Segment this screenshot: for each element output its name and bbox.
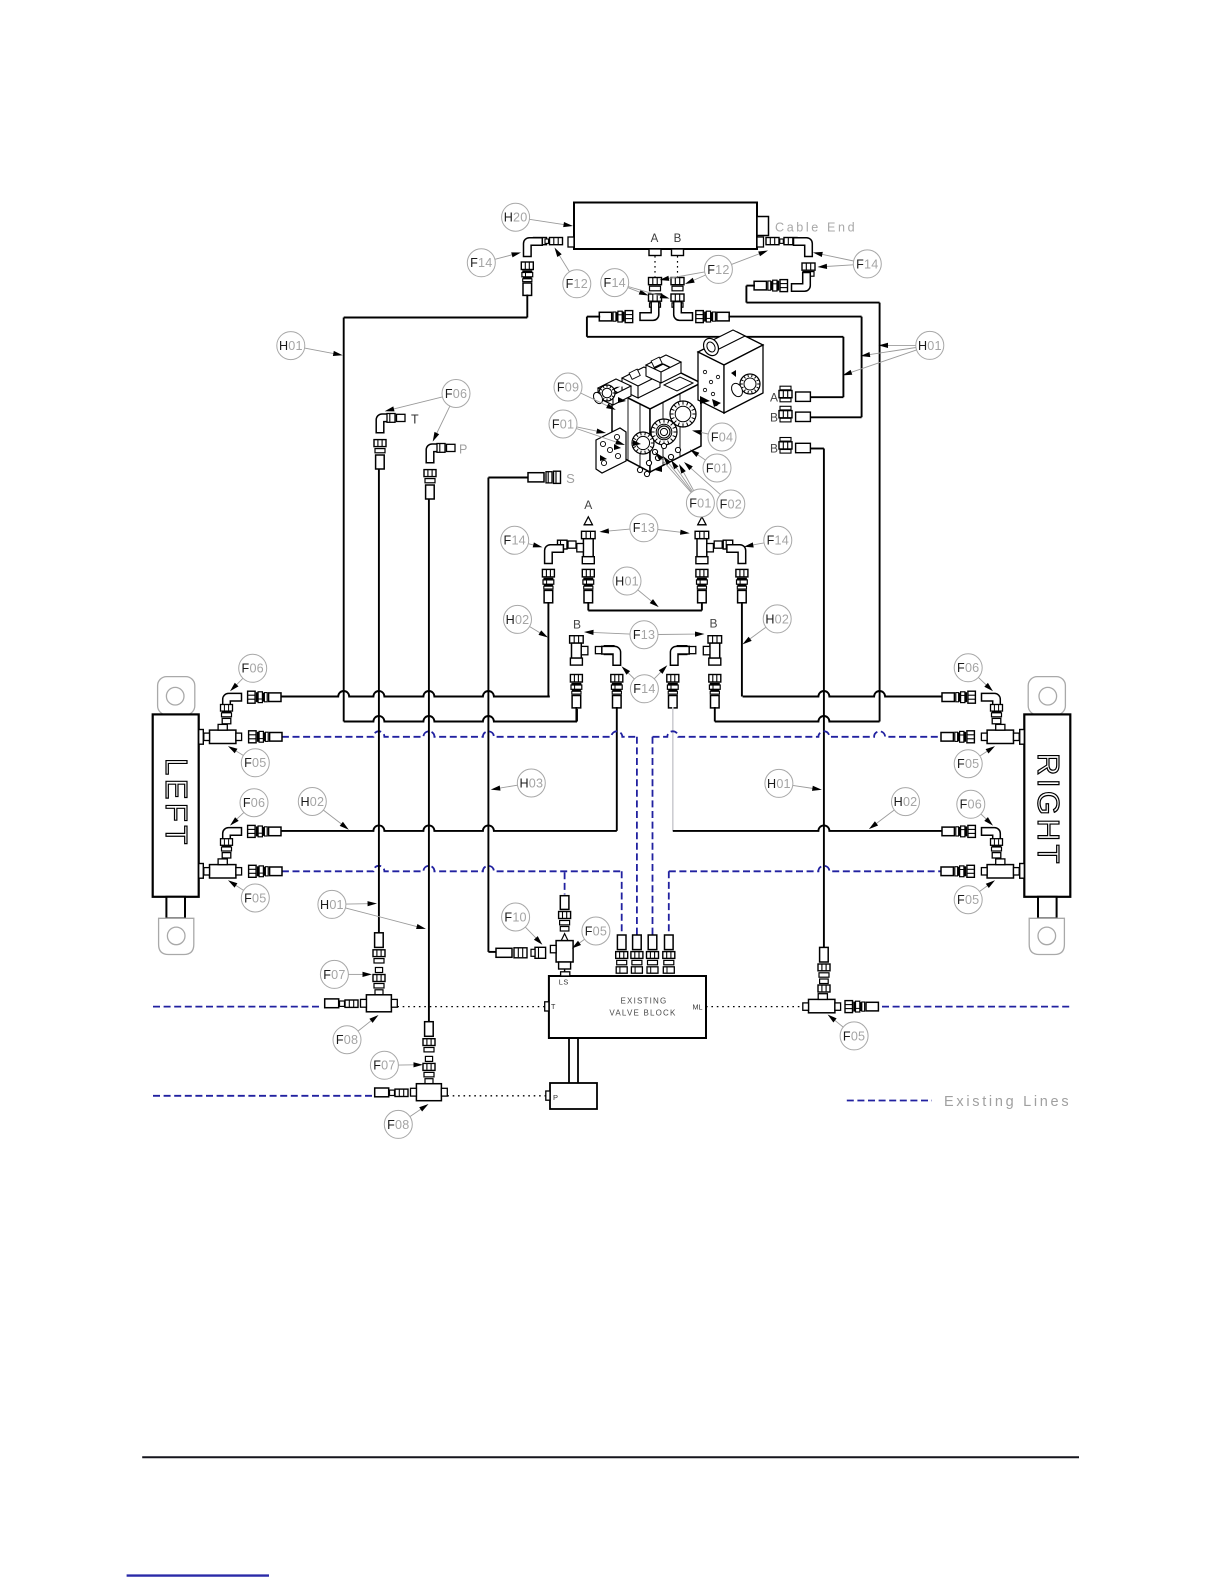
svg-text:F07: F07 xyxy=(373,1059,395,1073)
elbow F06 T-port xyxy=(376,414,395,433)
callout F05 right 1 xyxy=(954,746,995,778)
tee F08 lower xyxy=(411,1079,448,1101)
right cylinder port 2 stub xyxy=(1020,864,1025,879)
cable-end left port stub xyxy=(568,237,574,247)
left cylinder barrel xyxy=(153,714,199,896)
callout F14 mid xyxy=(601,269,670,299)
fitting stack below right F14 elbow xyxy=(736,569,748,602)
callout F14 mid-right xyxy=(744,526,792,554)
wire H01 between A-tees xyxy=(588,602,702,611)
callout H01 right-mid xyxy=(765,769,822,797)
callout F05 left 2 xyxy=(228,880,269,912)
fitting F12 on port A drop xyxy=(649,278,662,291)
elbow F06 above right port2 xyxy=(982,828,1001,847)
svg-text:EXISTING: EXISTING xyxy=(621,997,668,1006)
callout H01 middle xyxy=(613,567,659,607)
callout F07 upper xyxy=(320,960,372,988)
label S xyxy=(566,471,575,486)
label ML port xyxy=(693,1003,703,1012)
callout F12 right xyxy=(660,251,769,285)
dotted line F08 to valve T port xyxy=(397,1006,545,1008)
port B stub xyxy=(672,249,684,256)
svg-text:F06: F06 xyxy=(960,798,982,812)
fitting at valve port B lower xyxy=(779,438,810,454)
fitting stack between elbow and tee 2 xyxy=(221,839,233,858)
svg-text:H01: H01 xyxy=(279,339,303,353)
callout F07 lower xyxy=(370,1051,423,1079)
label T port xyxy=(551,1002,556,1011)
label port A xyxy=(651,233,659,245)
svg-text:ML: ML xyxy=(693,1003,703,1012)
fitting nuts right of bottom F05 tee xyxy=(845,1001,878,1013)
callout F09 xyxy=(554,373,616,410)
fitting at valve port S xyxy=(528,471,561,483)
valve block fittings on top xyxy=(616,935,675,973)
wire hose A to valve port A xyxy=(587,317,844,398)
svg-text:F01: F01 xyxy=(552,417,574,431)
svg-text:P: P xyxy=(553,1093,558,1102)
svg-text:F12: F12 xyxy=(566,277,588,291)
svg-text:A: A xyxy=(770,391,778,405)
elbow F06 above right port1 xyxy=(982,693,1001,712)
fitting stack below T elbow xyxy=(374,440,386,469)
port A stub xyxy=(649,249,661,256)
right cylinder top clevis xyxy=(1028,677,1065,715)
wire H02 lower-right (gray) xyxy=(672,707,674,831)
elbow under port A xyxy=(640,302,659,321)
cable-end right tab xyxy=(757,217,769,236)
callout F06 left 2 xyxy=(230,789,268,826)
svg-text:Existing Lines: Existing Lines xyxy=(944,1094,1071,1110)
existing line lower-right (blue dashed) xyxy=(669,866,941,872)
svg-text:F06: F06 xyxy=(242,662,264,676)
wire H01 bus right xyxy=(715,716,880,722)
callout H02 right-mid xyxy=(869,788,920,830)
legend text Existing Lines xyxy=(944,1094,1071,1110)
callout F01 right xyxy=(690,450,731,483)
label valve port A xyxy=(770,391,778,405)
svg-text:F04: F04 xyxy=(711,430,733,444)
dotted drop from port A xyxy=(654,256,656,277)
elbow under port B xyxy=(674,302,693,321)
svg-text:F06: F06 xyxy=(957,661,979,675)
fitting F14 stack below top-left elbow xyxy=(521,262,533,295)
valve block LS port stub xyxy=(561,972,570,976)
callout F08 upper xyxy=(333,1015,379,1054)
wire H01 bus left xyxy=(344,709,577,722)
svg-text:P: P xyxy=(459,443,467,457)
svg-text:F10: F10 xyxy=(504,910,526,924)
fitting nuts right of port1 elbow xyxy=(248,691,281,703)
dotted line F08 to P block xyxy=(447,1095,546,1097)
left cylinder bottom clevis xyxy=(159,918,194,954)
tee F05 at LS xyxy=(550,934,573,969)
callout F05 middle xyxy=(572,917,610,949)
callout F10 xyxy=(502,903,543,945)
fitting nuts left of right B-tee xyxy=(677,646,696,655)
svg-text:F05: F05 xyxy=(957,757,979,771)
existing riser 4 (blue dashed) xyxy=(668,871,670,935)
svg-text:F02: F02 xyxy=(720,497,742,511)
fitting stack below left A-tee xyxy=(582,569,594,602)
fitting nuts left of right port2 elbow xyxy=(942,825,975,837)
svg-text:H01: H01 xyxy=(767,777,791,791)
svg-text:T: T xyxy=(411,413,419,427)
svg-text:F13: F13 xyxy=(633,521,655,535)
svg-text:F05: F05 xyxy=(244,891,266,905)
label A left xyxy=(584,498,592,512)
wire H01 cable-end to right B-tee (upper part) xyxy=(746,286,879,722)
svg-text:S: S xyxy=(566,471,575,486)
wire hose bus top-left (rod ends) xyxy=(281,691,550,697)
wire right B-tee to bus xyxy=(714,707,716,722)
elbow F14 top-right xyxy=(794,238,813,257)
fitting stack on P-line bottom xyxy=(423,1022,435,1052)
svg-text:LS: LS xyxy=(559,978,569,987)
svg-text:F01: F01 xyxy=(706,461,728,475)
svg-text:F05: F05 xyxy=(843,1029,865,1043)
footer rule xyxy=(142,1456,1079,1458)
svg-text:F08: F08 xyxy=(387,1118,409,1132)
hose fittings left of F10 xyxy=(496,948,527,958)
fitting stack below right A-tee xyxy=(696,569,708,602)
P block port stub xyxy=(546,1091,550,1100)
svg-text:F14: F14 xyxy=(504,534,526,548)
label LEFT xyxy=(159,758,194,848)
label RIGHT xyxy=(1031,753,1066,867)
wire LS tee to valve block xyxy=(564,969,566,974)
elbow F14 inner-right xyxy=(670,646,689,665)
callout F05 bottom-right xyxy=(828,1015,869,1050)
svg-text:F14: F14 xyxy=(633,682,655,696)
callout F12 left xyxy=(555,248,591,298)
elbow lower top-right xyxy=(792,273,811,292)
wire H02 bus lower-right xyxy=(673,825,942,830)
elbow F14 right of A-tee xyxy=(727,545,746,564)
tee F05 bottom right xyxy=(803,994,841,1013)
hose fitting nuts right of B elbow xyxy=(696,311,729,323)
svg-text:H01: H01 xyxy=(320,898,344,912)
existing riser 3 (blue dashed) xyxy=(652,737,654,935)
callout F13 lower xyxy=(584,621,705,649)
callout F06 right 2 xyxy=(957,790,993,825)
existing riser 1 (blue dashed) xyxy=(621,871,623,935)
svg-text:F06: F06 xyxy=(445,387,467,401)
fitting nuts right of P elbow xyxy=(437,444,455,453)
valve manifold assembly (isometric) xyxy=(592,355,701,480)
fitting stack on LS riser xyxy=(559,896,571,931)
callout F04 xyxy=(692,423,736,451)
wire hose P-line xyxy=(428,499,430,1022)
fitting nuts right of T elbow xyxy=(387,414,405,423)
tee F13 left (A) xyxy=(577,517,595,564)
svg-text:F14: F14 xyxy=(856,257,878,271)
svg-text:F14: F14 xyxy=(767,534,789,548)
label B left xyxy=(573,618,581,632)
fitting stack below left B-tee xyxy=(570,675,582,708)
wire H02 left upper xyxy=(548,602,549,697)
fitting stack below right B-tee xyxy=(709,675,721,708)
svg-text:H20: H20 xyxy=(504,211,528,225)
callout F02 xyxy=(684,462,745,518)
left cylinder top clevis xyxy=(158,677,195,715)
fitting nuts left of right port1 tee xyxy=(941,731,974,743)
right cylinder bottom clevis xyxy=(1029,918,1064,954)
existing riser LS (blue dashed) xyxy=(564,872,566,894)
svg-text:F05: F05 xyxy=(585,924,607,938)
fitting nuts left of lower F08 xyxy=(375,1088,408,1097)
tee F05 left port 2 xyxy=(204,856,242,878)
fitting nuts right of port2 tee xyxy=(249,865,282,877)
fitting nuts left of right port2 tee xyxy=(941,865,974,877)
callout H20 xyxy=(502,203,573,231)
right cylinder rod xyxy=(1038,897,1057,919)
svg-text:F14: F14 xyxy=(470,256,492,270)
callout F08 lower xyxy=(384,1104,428,1138)
callout H01 left xyxy=(277,332,343,360)
callout F06 right 1 xyxy=(954,654,993,692)
fitting stack below inner-left elbow xyxy=(611,675,623,708)
tee F05 right port 1 xyxy=(981,722,1019,744)
hose fittings left of top-right elbow xyxy=(754,280,787,292)
fitting nuts right of port2 elbow xyxy=(248,825,281,837)
existing line lower-left (blue dashed) xyxy=(282,866,622,872)
callout H02 left-mid xyxy=(298,788,349,830)
label LS xyxy=(559,978,569,987)
svg-text:H01: H01 xyxy=(615,574,639,588)
valve block P riser xyxy=(569,1038,578,1083)
svg-text:B: B xyxy=(770,442,778,456)
callout H01 bottom-left xyxy=(318,890,426,929)
elbow F14 inner-left xyxy=(602,646,621,665)
wire H02 lower-left xyxy=(616,707,618,831)
fitting F07 upper xyxy=(373,968,385,989)
tee F13 right (A) xyxy=(695,517,713,564)
callout F05 right 2 xyxy=(954,880,995,913)
elbow F14 top-left xyxy=(524,238,543,257)
valve block T port stub xyxy=(545,1002,549,1011)
fitting nuts right of A-tee xyxy=(714,540,733,549)
existing line left to F08 tee (blue dashed) xyxy=(153,1006,322,1008)
svg-text:F06: F06 xyxy=(243,796,265,810)
left cylinder rod xyxy=(166,897,185,919)
svg-text:F01: F01 xyxy=(689,496,711,510)
fitting F12 on port B drop xyxy=(671,278,684,291)
existing riser 2 (blue dashed) xyxy=(636,737,638,935)
existing line left to lower F08 tee (blue dashed) xyxy=(153,1095,372,1097)
wire H03 S-port to F10 xyxy=(488,478,528,952)
fitting stack on T-line bottom xyxy=(373,933,385,963)
svg-text:B: B xyxy=(709,617,717,631)
svg-text:VALVE BLOCK: VALVE BLOCK xyxy=(609,1009,676,1018)
fitting stack below left F14 elbow xyxy=(542,569,554,602)
svg-text:F05: F05 xyxy=(957,893,979,907)
svg-text:F08: F08 xyxy=(336,1033,358,1047)
callout H02 mid-left xyxy=(504,605,549,637)
callout F14 lower xyxy=(622,665,668,703)
fitting nuts left of A-tee xyxy=(558,540,577,549)
svg-text:B: B xyxy=(770,411,778,425)
label Cable End xyxy=(775,221,857,235)
svg-text:A: A xyxy=(651,233,659,245)
wire H02 right upper xyxy=(741,602,743,697)
callout H03 xyxy=(491,769,546,797)
fitting nuts right of left B-tee xyxy=(595,646,614,655)
label valve port B lower xyxy=(770,442,778,456)
fitting stack above right F05 tee xyxy=(818,947,830,992)
right cylinder barrel xyxy=(1024,714,1070,896)
fitting nuts at cable-end right port xyxy=(766,238,797,245)
legend existing lines dash xyxy=(847,1100,932,1102)
label T xyxy=(411,413,419,427)
wire hose B to valve port B xyxy=(728,317,861,418)
label A right xyxy=(698,498,706,512)
callout H01 right xyxy=(843,331,944,375)
hose H20 cable-end cylinder body xyxy=(574,203,757,250)
callout F06 top-left xyxy=(385,380,470,442)
svg-text:F13: F13 xyxy=(633,628,655,642)
callout F06 left 1 xyxy=(230,654,267,691)
P block xyxy=(550,1083,597,1109)
svg-text:H02: H02 xyxy=(300,795,324,809)
svg-text:H02: H02 xyxy=(765,612,789,626)
tee F05 right port 2 xyxy=(981,856,1019,878)
callout H02 mid-right xyxy=(743,605,792,645)
fitting F14 hose end under A xyxy=(649,294,662,307)
hose fitting nuts left of A elbow xyxy=(599,311,632,323)
left cylinder port 2 stub xyxy=(199,864,204,879)
tee F13 right (B) xyxy=(703,636,721,665)
fitting at valve port B upper xyxy=(779,406,810,422)
existing valve block body xyxy=(549,976,706,1038)
dotted line ML to right F05 tee xyxy=(706,1006,803,1008)
fitting nuts right of port1 tee xyxy=(249,731,282,743)
existing line upper-left (blue dashed) xyxy=(282,731,637,737)
existing line right of F05 tee (blue dashed) xyxy=(882,1006,1070,1008)
svg-text:F07: F07 xyxy=(323,968,345,982)
fitting stack between elbow and tee 1 xyxy=(221,705,233,724)
tee F05 left port 1 xyxy=(204,722,242,744)
svg-text:A: A xyxy=(584,498,592,512)
fitting stack below P elbow xyxy=(424,470,436,499)
elbow F06 above port1 xyxy=(223,693,242,712)
right cylinder port 1 stub xyxy=(1020,730,1025,745)
svg-text:H02: H02 xyxy=(894,795,918,809)
fitting F07 lower xyxy=(423,1056,435,1077)
fitting stack below inner-right elbow xyxy=(667,675,679,708)
svg-text:B: B xyxy=(573,618,581,632)
label port B xyxy=(674,233,682,245)
fitting stack between elbow and tee right 2 xyxy=(991,839,1003,858)
svg-text:RIGHT: RIGHT xyxy=(1031,753,1066,867)
svg-text:H01: H01 xyxy=(918,339,942,353)
fitting F10 xyxy=(531,947,546,958)
fitting nuts at cable-end left port xyxy=(534,238,563,245)
existing line upper-right (blue dashed) xyxy=(653,731,942,737)
svg-text:T: T xyxy=(551,1002,556,1011)
fitting nuts left of right port1 elbow xyxy=(942,691,975,703)
cable-end right port stub xyxy=(757,237,764,247)
svg-text:LEFT: LEFT xyxy=(159,758,194,848)
elbow F06 P-port xyxy=(426,444,445,463)
wire H01 cable-end to left B-tee (upper part) xyxy=(344,295,528,722)
svg-text:H02: H02 xyxy=(506,613,530,627)
svg-text:F09: F09 xyxy=(557,380,579,394)
label P xyxy=(459,443,467,457)
wire hose T-line xyxy=(378,469,380,933)
callout F05 left 1 xyxy=(228,746,269,777)
tee F08 upper xyxy=(361,990,398,1012)
tee F13 left (B) xyxy=(570,636,588,665)
elbow F06 above port2 xyxy=(223,828,242,847)
fitting F14 hose end under B xyxy=(671,294,684,307)
fitting nut below top-right elbow xyxy=(802,263,815,276)
label B right xyxy=(709,617,717,631)
dotted drop from port B xyxy=(677,256,679,277)
footer link underline xyxy=(127,1574,269,1576)
wire hose bus top-right xyxy=(743,691,943,697)
callout F13 upper xyxy=(599,514,689,542)
fitting at valve port A xyxy=(779,386,810,402)
callout F01 left xyxy=(549,410,625,445)
fitting nuts left of upper F08 xyxy=(325,999,358,1008)
callout F01 bottom xyxy=(655,452,714,517)
label EXISTING VALVE BLOCK xyxy=(609,997,676,1018)
callout F14 top-right xyxy=(813,250,881,278)
callout F14 mid-left xyxy=(501,526,543,554)
svg-text:Cable End: Cable End xyxy=(775,221,857,235)
svg-text:F05: F05 xyxy=(244,756,266,770)
left cylinder port 1 stub xyxy=(199,730,204,745)
solenoid valve F12 (isometric) xyxy=(698,330,763,413)
svg-text:F12: F12 xyxy=(707,263,729,277)
elbow F14 left of A-tee xyxy=(545,545,564,564)
fitting stack between elbow and tee right 1 xyxy=(991,705,1003,724)
callout F14 top-left xyxy=(467,249,521,277)
wire H01 valve B lower to right F05 tee xyxy=(810,449,824,948)
svg-text:F14: F14 xyxy=(604,276,626,290)
label P port xyxy=(553,1093,558,1102)
label valve port B upper xyxy=(770,411,778,425)
wire H02 bus lower-left xyxy=(281,825,617,830)
svg-text:H03: H03 xyxy=(519,776,543,790)
wire left B-tee to bus xyxy=(575,707,577,722)
svg-text:B: B xyxy=(674,233,682,245)
